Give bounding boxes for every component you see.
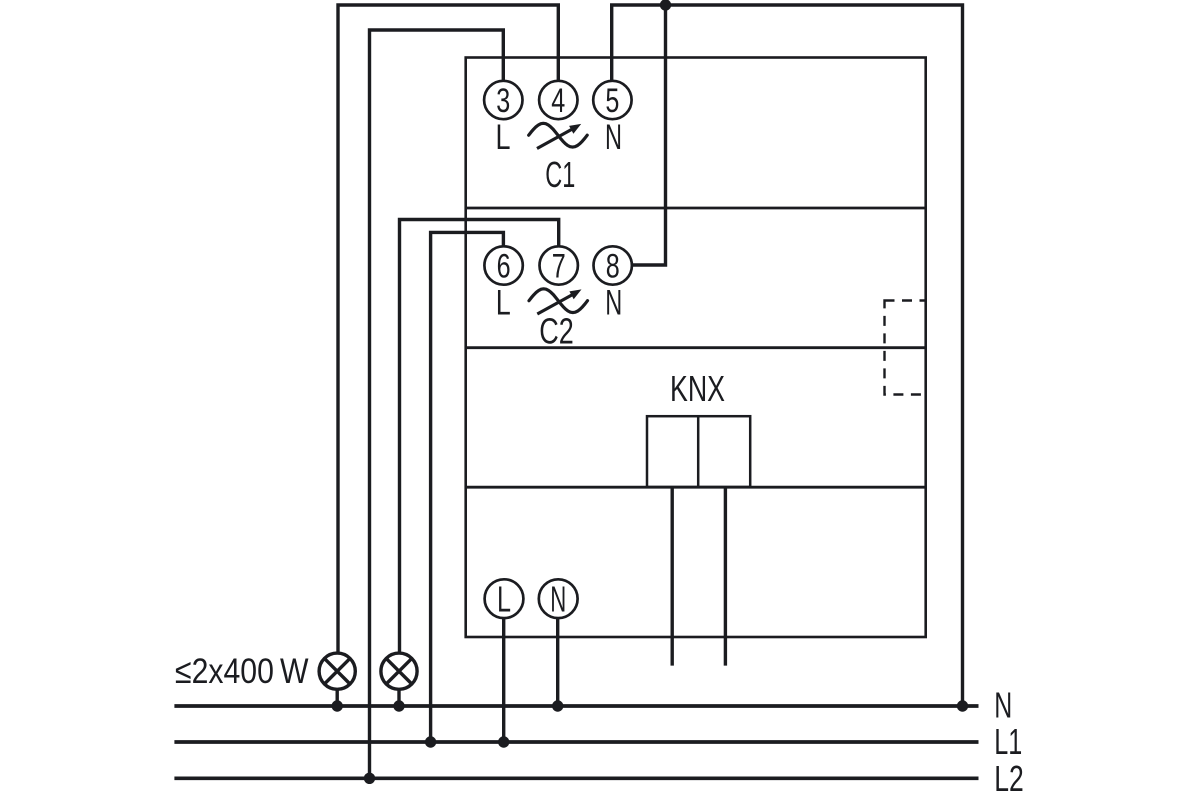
wire: terminal N down to N rail <box>556 618 559 704</box>
lamp E1 <box>319 653 355 689</box>
wire: lamp E2 down to N rail <box>397 691 400 707</box>
svg-text:8: 8 <box>606 248 620 286</box>
junction dot lamp E1 / N rail <box>332 700 343 711</box>
junction dot terminal L / L1 rail <box>498 736 509 747</box>
svg-text:C2: C2 <box>539 311 574 352</box>
terminal 5 circle <box>593 81 631 119</box>
svg-text:L: L <box>496 118 511 157</box>
junction dot wire / L1 rail <box>425 736 436 747</box>
terminal 7 circle <box>540 246 578 284</box>
KNX bus wire + <box>671 487 674 665</box>
svg-text:L: L <box>496 284 511 323</box>
svg-text:C1: C1 <box>545 154 575 195</box>
junction dot right riser / N rail <box>957 700 968 711</box>
bus rail L2 <box>174 776 978 780</box>
wire: lamp E2 to terminal 7 <box>400 220 559 653</box>
terminal N circle <box>539 579 578 618</box>
svg-text:6: 6 <box>497 248 511 286</box>
wire: L2 riser to terminal 3 <box>370 30 504 776</box>
svg-text:N: N <box>550 579 566 620</box>
wire: terminal 8 to top junction <box>632 5 666 265</box>
svg-text:7: 7 <box>552 248 566 286</box>
terminal L circle <box>485 579 524 618</box>
wire: terminal 5 riser to top N rail <box>612 5 963 704</box>
junction dot terminal N / N rail <box>552 700 563 711</box>
device U1 outline (dimmer actuator) <box>466 58 926 638</box>
divider row1/row2 <box>466 207 926 210</box>
wire: lamp E1 down to N rail <box>336 691 339 707</box>
divider row3/row4 <box>466 486 926 489</box>
divider row2/row3 <box>466 346 926 349</box>
bus rail N <box>174 704 978 708</box>
terminal 4 circle <box>539 81 577 119</box>
svg-text:KNX: KNX <box>670 368 725 409</box>
svg-text:≤2x400 W: ≤2x400 W <box>175 652 309 691</box>
svg-text:L1: L1 <box>994 721 1022 762</box>
lamp E2 <box>381 653 417 689</box>
node junction top (terminal5/terminal8 net) <box>660 0 671 11</box>
terminal 3 circle <box>484 81 522 119</box>
svg-text:3: 3 <box>496 82 510 120</box>
terminal 8 circle <box>594 246 632 284</box>
svg-text:L: L <box>497 579 511 620</box>
KNX bus connector <box>647 416 750 487</box>
svg-text:N: N <box>605 284 622 323</box>
wire: L1 riser to terminal 6 <box>431 232 504 740</box>
KNX bus wire - <box>724 487 727 665</box>
wire: terminal L down to L1 <box>502 618 505 740</box>
svg-text:N: N <box>605 118 622 157</box>
dashed accessory box <box>885 301 926 395</box>
wire top: lamp E1 to terminal 4 <box>338 5 558 652</box>
svg-text:L2: L2 <box>994 758 1024 799</box>
junction dot wire / L2 rail <box>364 773 375 784</box>
bus rail L1 <box>174 740 978 744</box>
dimmer symbol C2 <box>529 289 588 314</box>
svg-text:5: 5 <box>605 82 619 120</box>
svg-text:N: N <box>994 685 1012 726</box>
terminal 6 circle <box>484 246 522 284</box>
svg-text:4: 4 <box>551 82 565 120</box>
dimmer symbol C1 <box>529 123 588 148</box>
junction dot lamp E2 / N rail <box>393 700 404 711</box>
